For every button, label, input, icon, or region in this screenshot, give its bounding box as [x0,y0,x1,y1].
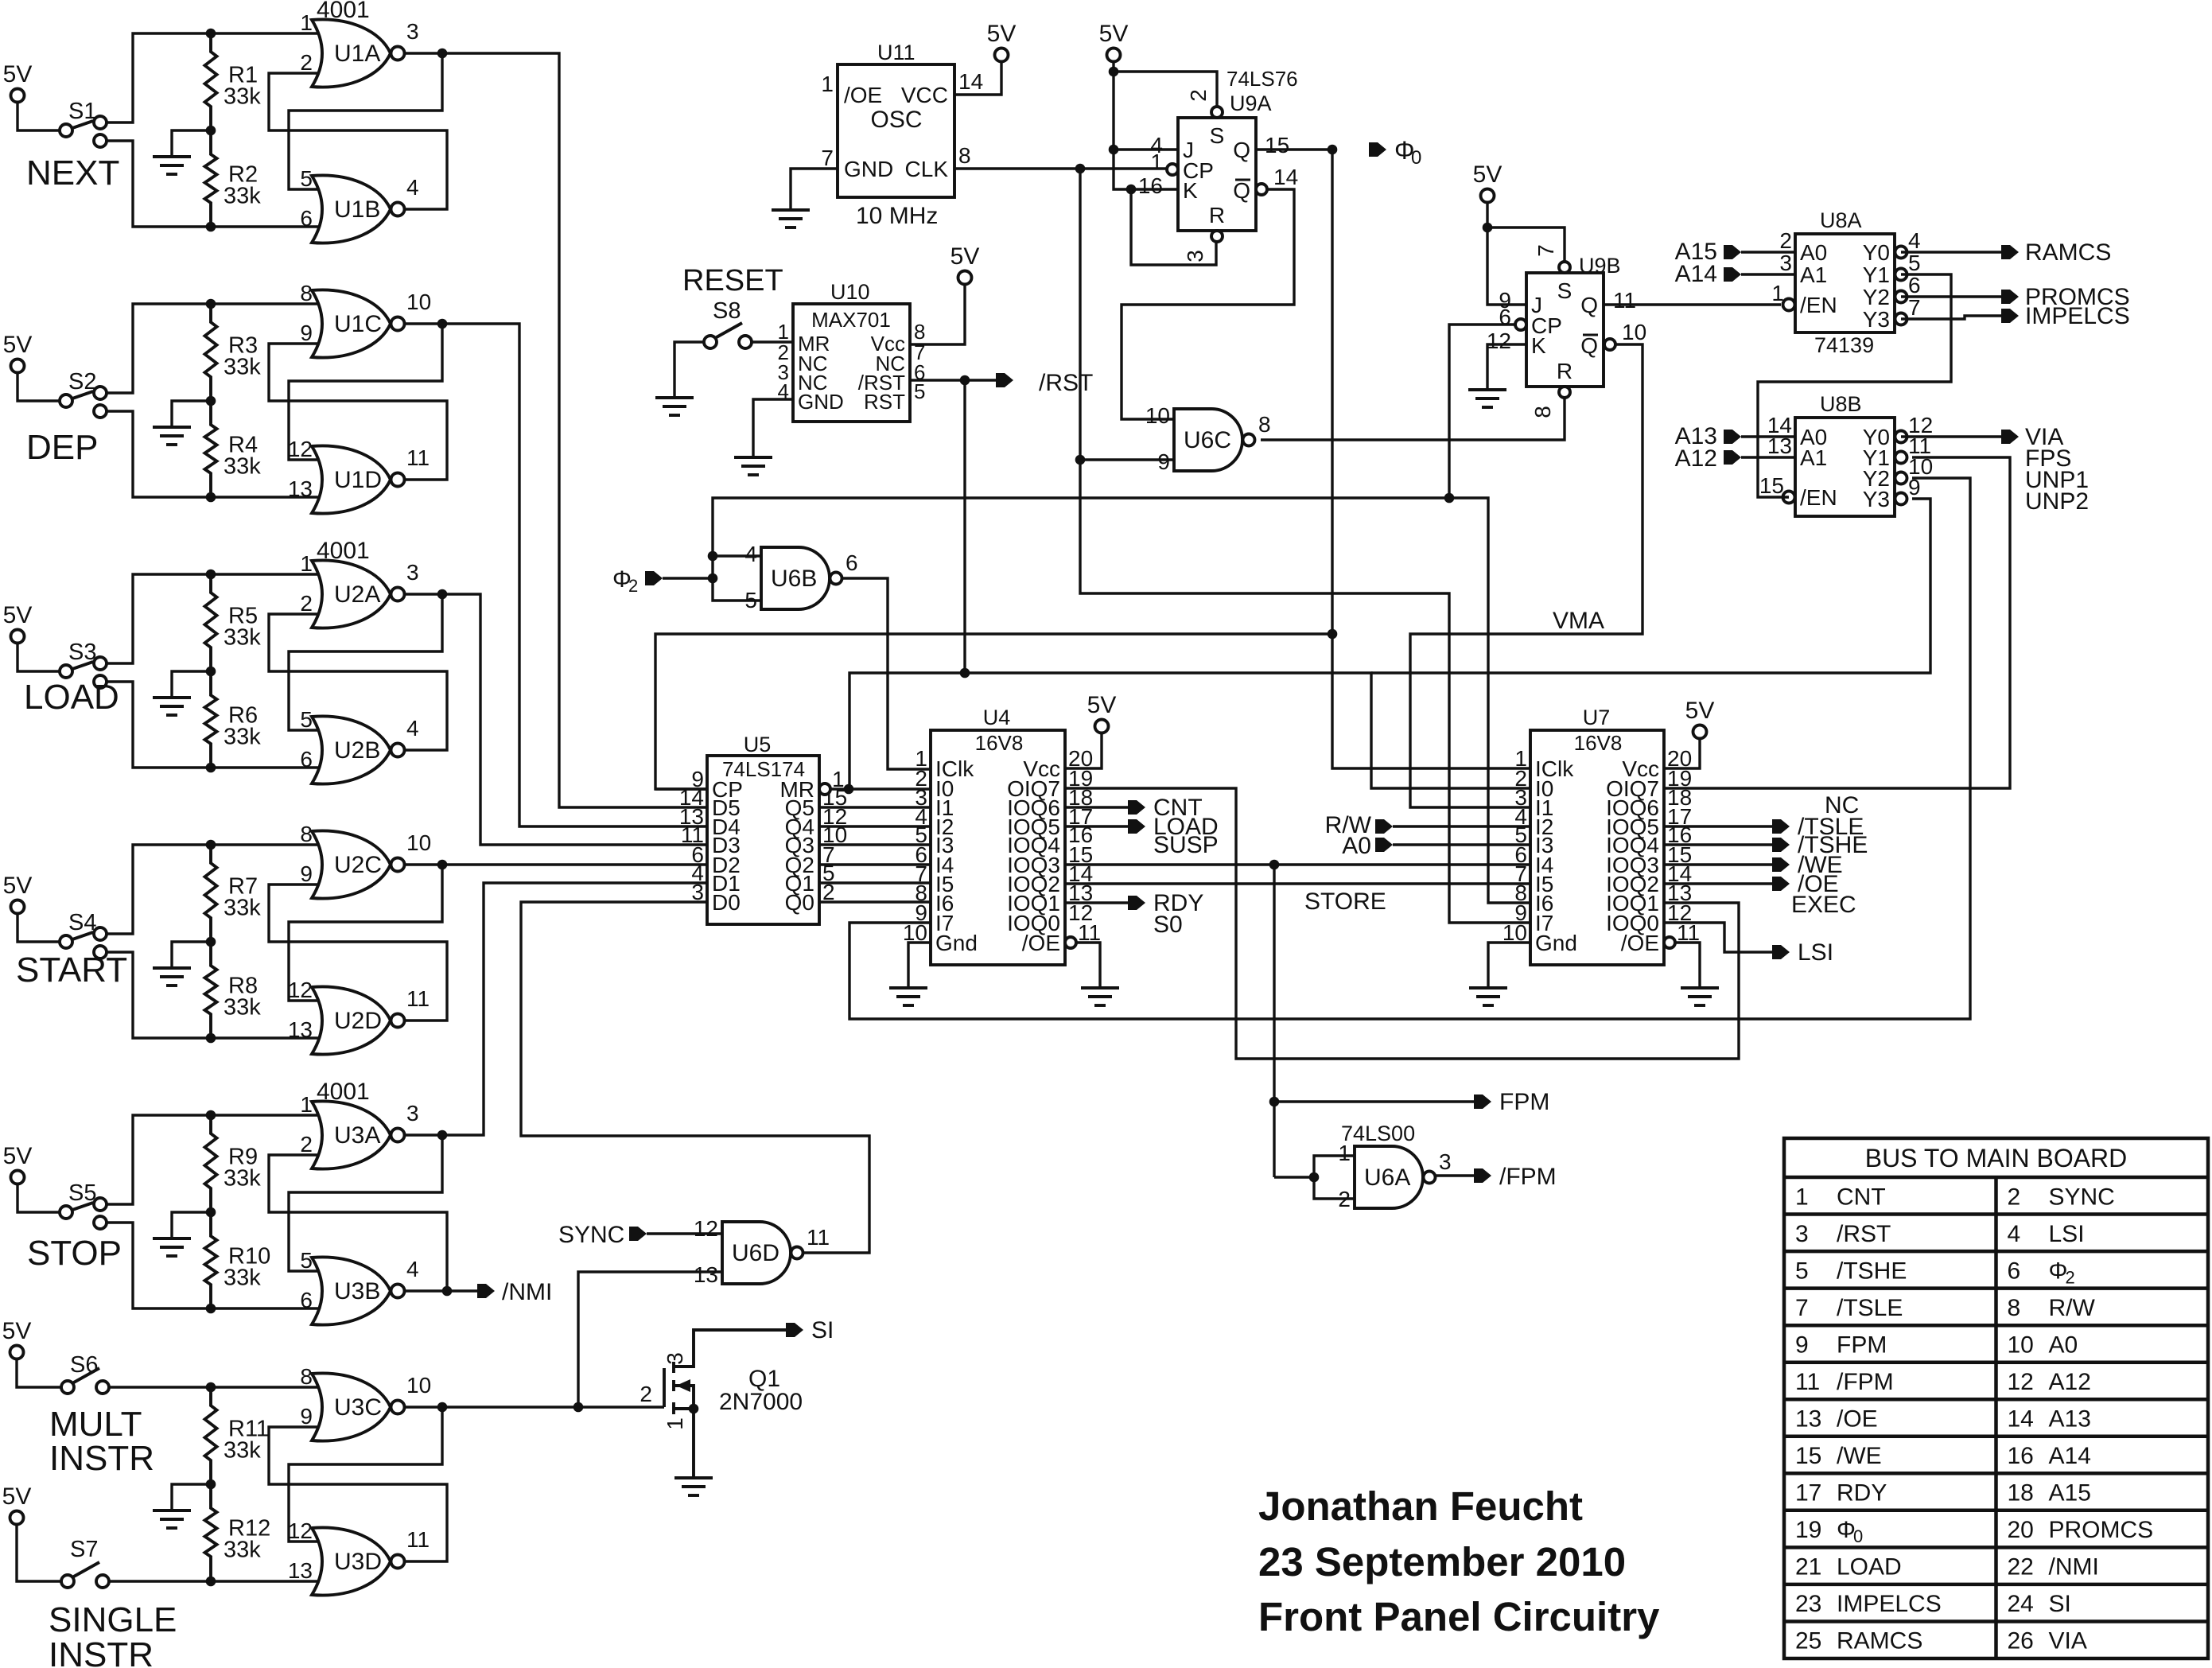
svg-text:SYNC: SYNC [558,1222,624,1248]
wire U3D output to U3C input (feedback) [269,1427,447,1561]
label IOQ1 pin U4 [1007,891,1060,916]
resistor R6 [205,671,262,768]
wire S4 upper throw to top rail [107,845,318,934]
signal arrow CNT [1128,795,1203,821]
label Q4 pin U5 [785,815,814,839]
svg-text:2: 2 [2008,1184,2021,1210]
wire SYNC to U6D pin12 [647,1232,722,1234]
ground for U4 Gnd [889,988,927,1005]
wire U8A.Y0 to RAMCS [1901,251,2001,253]
node U3C output junction [437,1402,448,1413]
label Y1 pin U8A [1863,262,1890,287]
IC U5 74LS174 box [707,756,819,924]
svg-text:U2B: U2B [334,737,380,764]
svg-text:12: 12 [694,1216,718,1241]
pin 1 U5 [832,767,845,791]
bubble Y2 pin U8B [1895,472,1907,484]
svg-text:33k: 33k [224,1166,261,1192]
wire U4.Gnd to ground [908,943,931,986]
label NC U7 [1825,792,1859,818]
wire U1D output to U1C input (feedback) [269,344,447,480]
wire U4.Vcc to 5V [1065,733,1102,769]
svg-text:20: 20 [2008,1517,2034,1543]
bubble Y3 pin U8A [1895,313,1907,325]
svg-text:10: 10 [406,1373,431,1398]
wire 5V to switch S2 [17,372,60,401]
net U4.IOQ2 to U7.I5 [1065,882,1530,885]
svg-text:11: 11 [807,1225,830,1250]
pin 6 U9B [1499,305,1511,329]
wire U2C output to U2D input (feedback) [289,865,442,1001]
svg-text:CLK: CLK [905,157,949,181]
svg-text:6: 6 [300,1288,313,1312]
node bottom rail junction R8 [206,1033,216,1044]
svg-text:5V: 5V [987,21,1017,47]
label NC2 pin U10 [798,352,828,375]
pin 6 U7 [1514,842,1527,867]
resistor R2 [205,130,262,227]
IC U9B 74LS76 box [1526,273,1604,387]
NAND gate U6B [761,547,842,609]
label GND pin U10 [798,390,844,414]
NAND gate U6D [722,1222,803,1284]
title date 23 September 2010 [1258,1539,1626,1584]
net NEXT latch out to U5.D5 [442,53,707,807]
resistor R9 [205,1115,262,1212]
wire CLK to U6C pin 9 [1080,458,1174,461]
NOR gate U3A [300,1092,418,1169]
pin 2 U6A [1338,1187,1351,1211]
svg-text:GND: GND [844,157,893,181]
label R pin U9A [1209,203,1225,227]
svg-text:/OE: /OE [1837,1406,1878,1433]
svg-text:START: START [16,951,127,990]
svg-text:Front Panel Circuitry: Front Panel Circuitry [1258,1594,1660,1639]
svg-text:5V: 5V [3,602,33,628]
label RESET [682,264,783,297]
net MULT latch out to Q1 gate and U6D [442,1406,664,1408]
pin 6 U8A [1908,273,1921,297]
svg-text:4: 4 [744,542,757,566]
IC U4 16V8 box [931,730,1065,965]
net /RST to U5.MR [849,673,965,789]
signal arrow /WE [1772,852,1843,878]
label IOQ3 pin U7 [1606,853,1659,877]
pin 13 U8B [1767,434,1792,458]
wire U1C output [405,322,442,325]
bubble /OE pin U4 [1065,937,1076,948]
pin 3 U4 [915,785,927,810]
pin 12 U8B [1908,413,1933,437]
pin 10 U4 [903,920,927,945]
svg-text:16V8: 16V8 [1574,731,1623,755]
svg-text:/TSHE: /TSHE [1837,1258,1907,1284]
svg-text:Q: Q [1580,293,1598,317]
node mid divider junction [206,1207,216,1218]
svg-text:10: 10 [406,290,431,314]
svg-text:3: 3 [1439,1149,1452,1174]
svg-text:U11: U11 [877,41,916,64]
wire Phi2 into U6B [663,577,713,579]
node Q1 source-body junction [689,1404,699,1414]
ground at divider R11/R12 [153,1511,191,1528]
5V terminal for S4 [3,873,33,914]
pin 2 U9A [1186,89,1211,102]
svg-text:U3A: U3A [334,1122,380,1149]
label A0 pin U8B [1800,425,1827,449]
svg-text:1: 1 [300,551,313,576]
node top rail junction R5 [206,570,216,580]
svg-text:A0: A0 [1800,240,1827,265]
svg-text:8: 8 [1530,406,1555,418]
svg-text:/OE: /OE [844,83,882,107]
pin 17 U4 [1068,804,1093,829]
label IClk pin U4 [935,756,974,781]
svg-text:FPM: FPM [1499,1089,1549,1115]
pin 5 U5 [822,861,835,885]
label UNP1 [2025,467,2089,493]
svg-text:5V: 5V [3,873,33,899]
pin 5 U10 [914,379,925,403]
svg-text:10: 10 [406,830,431,855]
label 16V8 U4 [975,731,1024,755]
pin 2 U7 [1514,766,1527,791]
label I5 pin U4 [935,872,954,896]
pin 10 U5 [822,822,847,847]
svg-text:7: 7 [821,146,834,170]
svg-text:VIA: VIA [2049,1628,2087,1654]
svg-text:A14: A14 [1675,261,1717,287]
svg-text:10: 10 [2008,1332,2034,1358]
svg-text:33k: 33k [224,454,261,480]
label D0 pin U5 [712,890,741,915]
NOR gate U1A [300,10,418,87]
svg-text:2: 2 [1779,228,1792,253]
resistor R3 [205,304,262,401]
pin 10 U7 [1503,920,1527,945]
label Qbar pin U9A [1233,178,1250,203]
net U8B.Y3 to /RST trunk [1371,499,1930,673]
node 5V to S branch U9A [1109,67,1119,77]
5V terminal for S5 [3,1143,33,1184]
svg-text:U2A: U2A [334,581,380,608]
resistor R1 [205,33,262,130]
wire U7.IOQ3 to /WE [1664,863,1772,865]
svg-text:33k: 33k [224,1438,261,1464]
svg-text:12: 12 [288,1518,313,1543]
label NEXT for S1 [26,154,119,192]
svg-text:MULT: MULT [49,1405,142,1444]
label MULT for S6 [49,1405,142,1444]
svg-text:IMPELCS: IMPELCS [1837,1591,1942,1617]
svg-text:3: 3 [406,560,419,585]
wire U5.MR to U4.I0 [830,787,930,790]
wire U3A output [405,1133,442,1136]
label I0 pin U7 [1535,776,1553,801]
5V terminal for U4 [1087,692,1117,733]
svg-text:7: 7 [1534,244,1558,257]
svg-text:10 MHz: 10 MHz [856,203,938,229]
svg-text:5V: 5V [1685,698,1715,724]
svg-text:15: 15 [1759,473,1784,498]
svg-text:22: 22 [2008,1554,2034,1581]
svg-text:3: 3 [1795,1221,1809,1247]
wire U2A output [405,593,442,595]
node U1C output junction [437,319,448,329]
svg-text:7: 7 [1795,1295,1809,1321]
svg-text:15: 15 [1795,1443,1821,1469]
svg-text:Y3: Y3 [1863,307,1890,332]
wire U1C output to U1D input (feedback) [289,324,442,460]
signal arrow Phi0 [1369,142,1386,157]
ground for U7 Gnd [1469,988,1507,1005]
pin 1 U8A [1771,281,1784,305]
NOR gate U3B [300,1248,418,1325]
svg-text:6: 6 [300,747,313,772]
svg-text:/FPM: /FPM [1499,1164,1557,1190]
5V terminal for U9B [1473,161,1503,203]
label A0 input [1342,833,1371,859]
label A15 input [1675,239,1717,265]
svg-text:STOP: STOP [27,1234,122,1273]
label 16V8 U7 [1574,731,1623,755]
svg-text:IMPELCS: IMPELCS [2025,303,2130,329]
svg-text:13: 13 [288,1017,313,1042]
svg-text:25: 25 [1795,1628,1821,1654]
svg-text:Y1: Y1 [1863,262,1890,287]
5V terminal for S2 [3,332,33,373]
label Y1 pin U8B [1863,445,1890,470]
svg-text:13: 13 [288,1558,313,1583]
wire U5.Q4 to U4 input [819,825,930,827]
pin 1 U6A [1338,1141,1351,1165]
bubble /EN pin U8A [1783,299,1795,311]
svg-text:10: 10 [1145,403,1170,428]
switch S4 [60,910,107,958]
wire S1 lower throw to bottom rail [107,141,318,227]
resistor R12 [205,1484,271,1581]
label CP pin U9A [1183,158,1214,183]
pin 7 U7 [1514,861,1527,886]
svg-text:12: 12 [288,978,313,1002]
label MAX701 [811,308,891,332]
ground for U9B K [1468,390,1506,407]
bubble S pin U9B [1559,262,1570,273]
svg-text:9: 9 [300,861,313,886]
svg-text:16: 16 [1138,173,1163,198]
wire U7.IOQ5 to /TSLE [1664,825,1772,827]
pin 12 U4 [1068,900,1093,925]
wire K to R pin U9A [1131,189,1216,265]
bubble CP pin U9B [1515,319,1526,330]
svg-text:S6: S6 [70,1352,98,1378]
pin 13 U5 [679,804,704,829]
svg-text:1: 1 [821,72,834,96]
svg-text:11: 11 [406,445,430,470]
svg-text:5V: 5V [1099,21,1129,47]
wire U7.Vcc to 5V [1664,739,1700,769]
label I1 pin U7 [1535,795,1553,820]
svg-text:9: 9 [1908,475,1921,500]
label /OE pin U7 [1621,931,1659,955]
pin 10 U8B [1908,454,1933,479]
svg-text:1: 1 [300,1092,313,1117]
svg-text:5: 5 [914,379,925,403]
svg-text:4: 4 [1908,228,1921,253]
pin 6 U5 [691,842,704,867]
wire U3C output [405,1406,442,1408]
wire mid node to ground (R11/R12) [172,1484,211,1509]
wire S5 lower throw to bottom rail [107,1223,318,1308]
IC U8B 74139 box [1795,418,1895,516]
node /RST junction [960,375,970,386]
pin 14 U11 [958,69,983,94]
ground at divider R5/R6 [153,698,191,715]
svg-text:LSI: LSI [2049,1221,2085,1247]
svg-text:DEP: DEP [26,428,98,467]
pin 7 U8A [1908,295,1921,320]
wire U7./OE to ground [1675,943,1700,986]
svg-text:SYNC: SYNC [2049,1184,2115,1210]
label Y0 pin U8B [1863,425,1890,449]
label J pin U9A [1183,138,1194,162]
NOR gate U2D [288,978,430,1055]
wire U3A output to U3B input (feedback) [289,1135,442,1271]
wire U2B output to U2A input (feedback) [269,614,447,750]
NOR gate U2C [300,822,431,899]
pin 17 U7 [1667,804,1692,829]
label Q0 pin U5 [785,890,814,915]
pin 1 U11 [821,72,834,96]
wire S2 lower throw to bottom rail [107,411,318,497]
label OIQ7 pin U7 [1606,776,1659,801]
label CLK pin U11 [905,157,949,181]
table pin rows [1795,1184,2153,1654]
svg-text:10: 10 [1622,320,1646,344]
svg-text:U6D: U6D [732,1240,779,1266]
wire U4.IOQ5 to LOAD [1065,825,1128,827]
ground for U7 /OE [1681,988,1719,1005]
NOR gate U1C [300,281,431,358]
label U9A [1230,91,1272,115]
pin 9 U5 [691,767,704,791]
svg-text:33k: 33k [224,625,261,651]
bubble R pin U9B [1559,387,1570,398]
svg-text:8: 8 [2008,1295,2021,1321]
wire A0 to U7.I3 [1393,843,1530,846]
wire U8A.Y2 to PROMCS [1901,295,2001,297]
node U3B output junction [442,1286,453,1297]
pin 10 U9B [1622,320,1646,344]
net U6B out to U4 ICLK [842,578,930,769]
wire S8 to U10.MR [752,340,793,343]
pin 5 U7 [1514,822,1527,847]
label R/W input [1325,812,1372,838]
ground for U11 [772,210,810,227]
svg-text:STORE: STORE [1304,888,1386,915]
svg-text:6: 6 [1908,273,1921,297]
net U6D out to U5.D0 [521,902,869,1253]
wire STORE branch to U6A [1274,1176,1314,1178]
svg-text:Y0: Y0 [1863,240,1890,265]
5V terminal for U7 [1685,698,1715,739]
svg-text:SUSP: SUSP [1153,832,1219,858]
svg-text:6: 6 [300,206,313,231]
pin 6 U4 [915,842,927,867]
signal arrow LSI [1772,939,1833,966]
pin 4 U9A [1150,133,1163,157]
svg-text:U1B: U1B [334,196,380,223]
svg-text:U6A: U6A [1364,1164,1410,1191]
label MR pin U10 [798,332,830,356]
wire U3B output to U3A input (feedback) [269,1155,447,1291]
pin 2 U8A [1779,228,1792,253]
pin 14 U4 [1068,861,1093,886]
svg-text:16V8: 16V8 [975,731,1024,755]
label Y2 pin U8A [1863,285,1890,309]
pin 1 U9A [1150,150,1163,174]
pin 19 U4 [1068,766,1093,791]
svg-text:RST: RST [864,390,905,414]
arrow A15 [1724,245,1741,259]
wire U6B pin4 tie [713,556,761,578]
pin 9 U6C [1157,449,1170,474]
pin 11 U9B [1613,288,1636,313]
arrow A13 [1724,430,1741,444]
svg-text:R: R [1557,359,1573,383]
label I3 pin U4 [935,833,954,857]
net U9A Qbar to U6C pin10 [1122,189,1294,419]
5V terminal for S7 [2,1483,32,1525]
signal arrow /TSHE [1772,832,1868,858]
arrow Phi2 [645,571,663,585]
IC U11 oscillator box [838,64,954,197]
label A1 pin U8A [1800,262,1827,287]
svg-text:4: 4 [2008,1221,2021,1247]
label Q1 pin U5 [785,871,814,896]
label /OE pin U11 [844,83,882,107]
label U11 [877,41,916,64]
pin 2 Q1 [639,1382,652,1406]
switch S2 [60,369,107,418]
net CLK 10MHz vertical branch [1080,169,1530,923]
wire U7.Gnd to ground [1488,943,1530,986]
svg-text:A12: A12 [1675,445,1717,472]
wire 5V to switch S3 [17,643,60,671]
label RST pin U10 [864,390,905,414]
IC U7 16V8 box [1530,730,1664,965]
label Qbar pin U9B [1580,333,1598,358]
label NC3 pin U10 [798,371,828,395]
label D5 pin U5 [712,795,741,820]
svg-text:R: R [1209,203,1225,227]
label STOP for S5 [27,1234,122,1273]
svg-text:9: 9 [1157,449,1170,474]
NOR gate U3C [300,1364,431,1441]
resistor R5 [205,574,262,671]
node K to R loop U9A [1126,185,1137,195]
wire U7.IOQ4 to /TSHE [1664,843,1772,846]
pin 3 U5 [691,880,704,904]
node mid divider junction [206,126,216,136]
svg-text:11: 11 [1795,1369,1820,1395]
svg-text:PROMCS: PROMCS [2049,1517,2154,1543]
svg-text:S: S [1557,278,1573,303]
resistor R7 [205,845,262,942]
label IOQ4 pin U4 [1007,833,1060,857]
pin 14 U9A [1273,165,1298,189]
label SYNC input [558,1222,624,1248]
